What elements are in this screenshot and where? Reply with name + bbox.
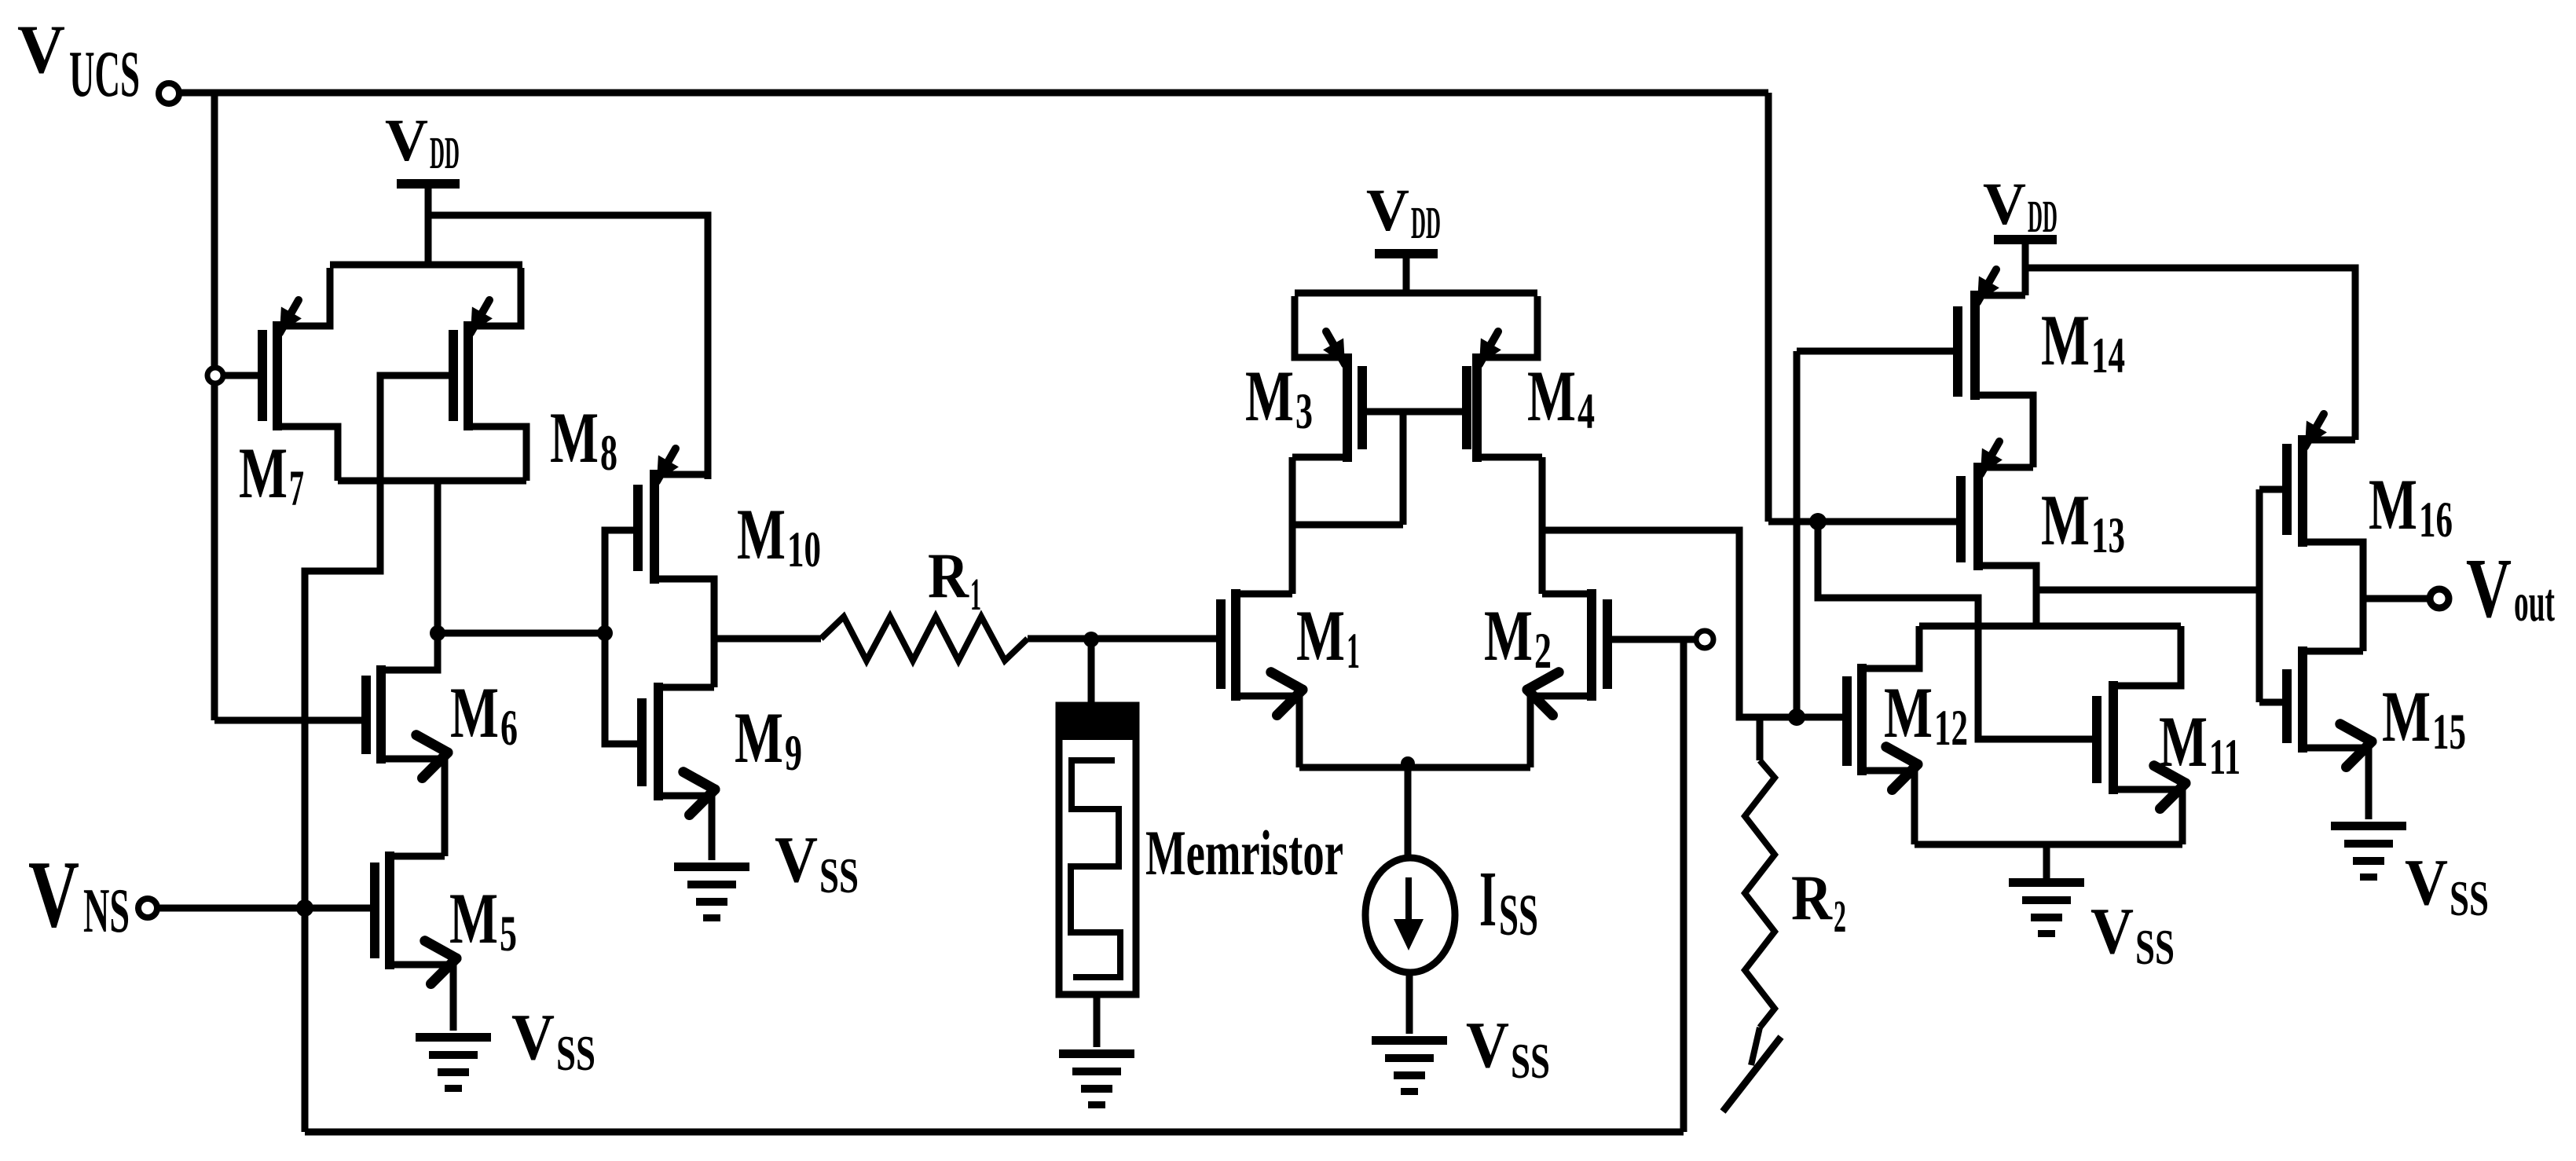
svg-text:M: M	[737, 494, 786, 574]
current source ISS	[1365, 855, 1538, 972]
svg-text:I: I	[1479, 855, 1497, 943]
svg-text:SS: SS	[556, 1025, 595, 1081]
svg-text:V: V	[2466, 542, 2512, 635]
wire M7 gate lead	[220, 372, 262, 379]
svg-text:M: M	[1484, 595, 1533, 676]
ground ISS VSS	[1372, 1009, 1550, 1095]
wire M6 gate lead	[214, 717, 366, 724]
memristor	[1059, 639, 1343, 1047]
transistor M3	[1245, 296, 1362, 462]
transistor M9	[642, 683, 802, 860]
transistor M12	[1847, 664, 1968, 844]
wire feedback riser to M2 gate	[1680, 639, 1687, 1132]
transistor M7	[239, 268, 338, 517]
svg-text:NS: NS	[83, 877, 130, 946]
wire M4 drain column	[1539, 457, 1546, 594]
node Vout terminal	[2430, 589, 2449, 608]
svg-text:Memristor: Memristor	[1145, 817, 1343, 888]
node VNS input terminal	[138, 899, 157, 917]
power VDD left bar	[397, 179, 460, 189]
svg-text:M: M	[2041, 300, 2090, 380]
wire bottom feedback rail	[305, 1129, 1684, 1136]
wire M3/M4 gate link	[1362, 408, 1467, 416]
transistor M15	[2287, 646, 2466, 819]
svg-text:out: out	[2514, 573, 2555, 633]
node VUCS input terminal	[159, 83, 179, 104]
svg-text:DD: DD	[430, 127, 460, 178]
svg-text:SS: SS	[819, 848, 859, 903]
svg-text:V: V	[1466, 1009, 1509, 1082]
wire ISS bottom stem	[1406, 972, 1413, 1034]
svg-text:13: 13	[2091, 507, 2125, 564]
svg-text:M: M	[449, 878, 498, 958]
resistor R2	[1723, 717, 1846, 1112]
wire net A from M4 drain	[1542, 530, 1847, 717]
transistor M6	[366, 638, 518, 856]
svg-text:1: 1	[1347, 623, 1360, 679]
wire VDD to M10 drain	[428, 215, 708, 479]
svg-text:9: 9	[785, 725, 802, 782]
svg-text:DD: DD	[1411, 197, 1441, 248]
svg-text:V: V	[2090, 895, 2134, 968]
svg-text:V: V	[28, 841, 79, 947]
wire M9 gate branch	[605, 633, 642, 744]
svg-text:M: M	[2159, 701, 2208, 782]
svg-text:14: 14	[2091, 328, 2125, 384]
node drain junction	[430, 625, 445, 641]
svg-text:M: M	[1884, 672, 1933, 753]
wire VUCS branch to M11 gate	[1818, 522, 2097, 739]
svg-text:V: V	[385, 108, 428, 174]
transistor M16	[2287, 414, 2453, 651]
svg-text:V: V	[511, 1001, 555, 1074]
wire M16 gate stub	[2259, 486, 2287, 493]
wire VNS riser to M8 gate	[305, 375, 453, 908]
wire M7/M8 drain drop to node	[434, 481, 442, 670]
wire M11/M12 ground rail	[1915, 841, 2182, 848]
svg-text:V: V	[1983, 171, 2026, 237]
wire M12 drain riser	[1862, 626, 1919, 668]
wire Vout tap	[2363, 595, 2430, 602]
wire M2 gate lead	[1611, 636, 1696, 643]
node VUCS branch junction	[1809, 513, 1827, 530]
svg-text:SS: SS	[1499, 883, 1538, 948]
svg-text:3: 3	[1295, 383, 1313, 440]
svg-text:6: 6	[500, 700, 518, 756]
svg-text:2: 2	[1834, 891, 1846, 942]
node VNS junction	[296, 899, 313, 917]
ground M5 VSS	[416, 1001, 595, 1092]
ground M15 VSS	[2331, 822, 2489, 926]
svg-text:7: 7	[289, 460, 304, 517]
svg-text:5: 5	[500, 906, 517, 962]
wire M13 source rail	[1919, 623, 2181, 630]
wire ground rail stem	[2043, 844, 2050, 878]
transistor M2	[1484, 589, 1607, 767]
svg-text:M: M	[1296, 595, 1345, 676]
svg-text:M: M	[450, 672, 499, 753]
wire VUCS right drop	[1765, 93, 1772, 522]
node gate column junction	[597, 625, 613, 641]
wire M15 gate stub	[2259, 699, 2287, 706]
svg-text:11: 11	[2209, 729, 2241, 786]
svg-text:V: V	[17, 12, 65, 88]
power VDD middle bar	[1375, 249, 1438, 258]
svg-text:R: R	[928, 540, 969, 611]
ground memristor	[1059, 1049, 1134, 1058]
svg-text:V: V	[775, 823, 818, 896]
svg-text:1: 1	[970, 569, 981, 620]
wire M3 drain column	[1289, 457, 1296, 594]
svg-text:M: M	[1527, 356, 1576, 436]
svg-text:10: 10	[787, 522, 821, 578]
ground M11/M12 VSS	[2009, 878, 2175, 975]
svg-text:V: V	[2405, 846, 2448, 919]
wire left bottom drop	[302, 908, 309, 1132]
svg-text:M: M	[735, 698, 783, 778]
node net A junction	[1788, 709, 1805, 726]
svg-text:M: M	[2041, 480, 2090, 560]
svg-text:M: M	[2382, 676, 2431, 756]
transistor M14	[1958, 269, 2125, 467]
transistor M11	[2097, 626, 2241, 844]
svg-text:SS: SS	[2135, 919, 2175, 975]
svg-text:V: V	[1366, 178, 1409, 244]
svg-text:2: 2	[1534, 623, 1552, 679]
wire VDD to M16 drain	[2025, 268, 2355, 440]
wire M10 gate branch	[605, 530, 638, 633]
svg-text:M: M	[550, 397, 599, 478]
wire M3 drain to gate link	[1292, 522, 1403, 529]
wire VDD middle stem	[1403, 258, 1410, 293]
node tail junction	[1401, 756, 1415, 771]
wire VUCS to M13 gate	[1768, 518, 1961, 526]
svg-text:UCS: UCS	[69, 38, 140, 111]
wire M7/M8 source rail	[330, 262, 522, 269]
wire M13 drain to output gates	[2036, 587, 2259, 594]
node R1/memristor junction	[1083, 632, 1099, 647]
wire VDD right stem	[2022, 244, 2029, 295]
power VDD right bar	[1994, 235, 2057, 244]
svg-text:16: 16	[2419, 492, 2453, 548]
wire M15/M16 gate column	[2256, 489, 2263, 702]
svg-text:12: 12	[1934, 700, 1968, 756]
svg-text:4: 4	[1577, 383, 1595, 440]
wire M7/M8 drain rail	[338, 478, 526, 485]
transistor M5	[375, 852, 517, 1031]
svg-text:15: 15	[2432, 704, 2466, 760]
svg-text:8: 8	[600, 425, 617, 482]
transistor M13	[1961, 441, 2125, 626]
svg-text:M: M	[239, 433, 288, 513]
node M7 gate tap	[207, 368, 223, 383]
wire VUCS top rail	[179, 90, 1768, 97]
ground M9 VSS	[674, 823, 859, 921]
svg-text:M: M	[1245, 356, 1294, 436]
svg-text:SS: SS	[1511, 1033, 1550, 1089]
node M2 gate terminal	[1696, 631, 1713, 648]
wire M3/M4 source rail	[1295, 290, 1537, 297]
svg-text:DD: DD	[2028, 191, 2058, 242]
wire tail rail	[1299, 764, 1530, 771]
wire VUCS left drop to M7/M6 gates	[211, 96, 218, 720]
wire VNS lead	[157, 905, 375, 912]
resistor R1	[714, 540, 1221, 661]
transistor M1	[1221, 589, 1360, 767]
wire M14 gate drop	[1794, 351, 1801, 717]
svg-text:SS: SS	[2450, 870, 2489, 926]
svg-text:R: R	[1791, 862, 1833, 933]
transistor M8	[453, 268, 617, 482]
wire node to M9/M10 gate column	[438, 630, 605, 637]
wire gate link drop	[1400, 412, 1407, 525]
wire tail stem	[1405, 767, 1412, 860]
wire VDD left stem	[425, 189, 432, 265]
svg-text:M: M	[2369, 464, 2417, 544]
wire M14 gate lead	[1797, 348, 1958, 355]
transistor M10	[638, 215, 821, 687]
transistor M4	[1467, 296, 1595, 462]
